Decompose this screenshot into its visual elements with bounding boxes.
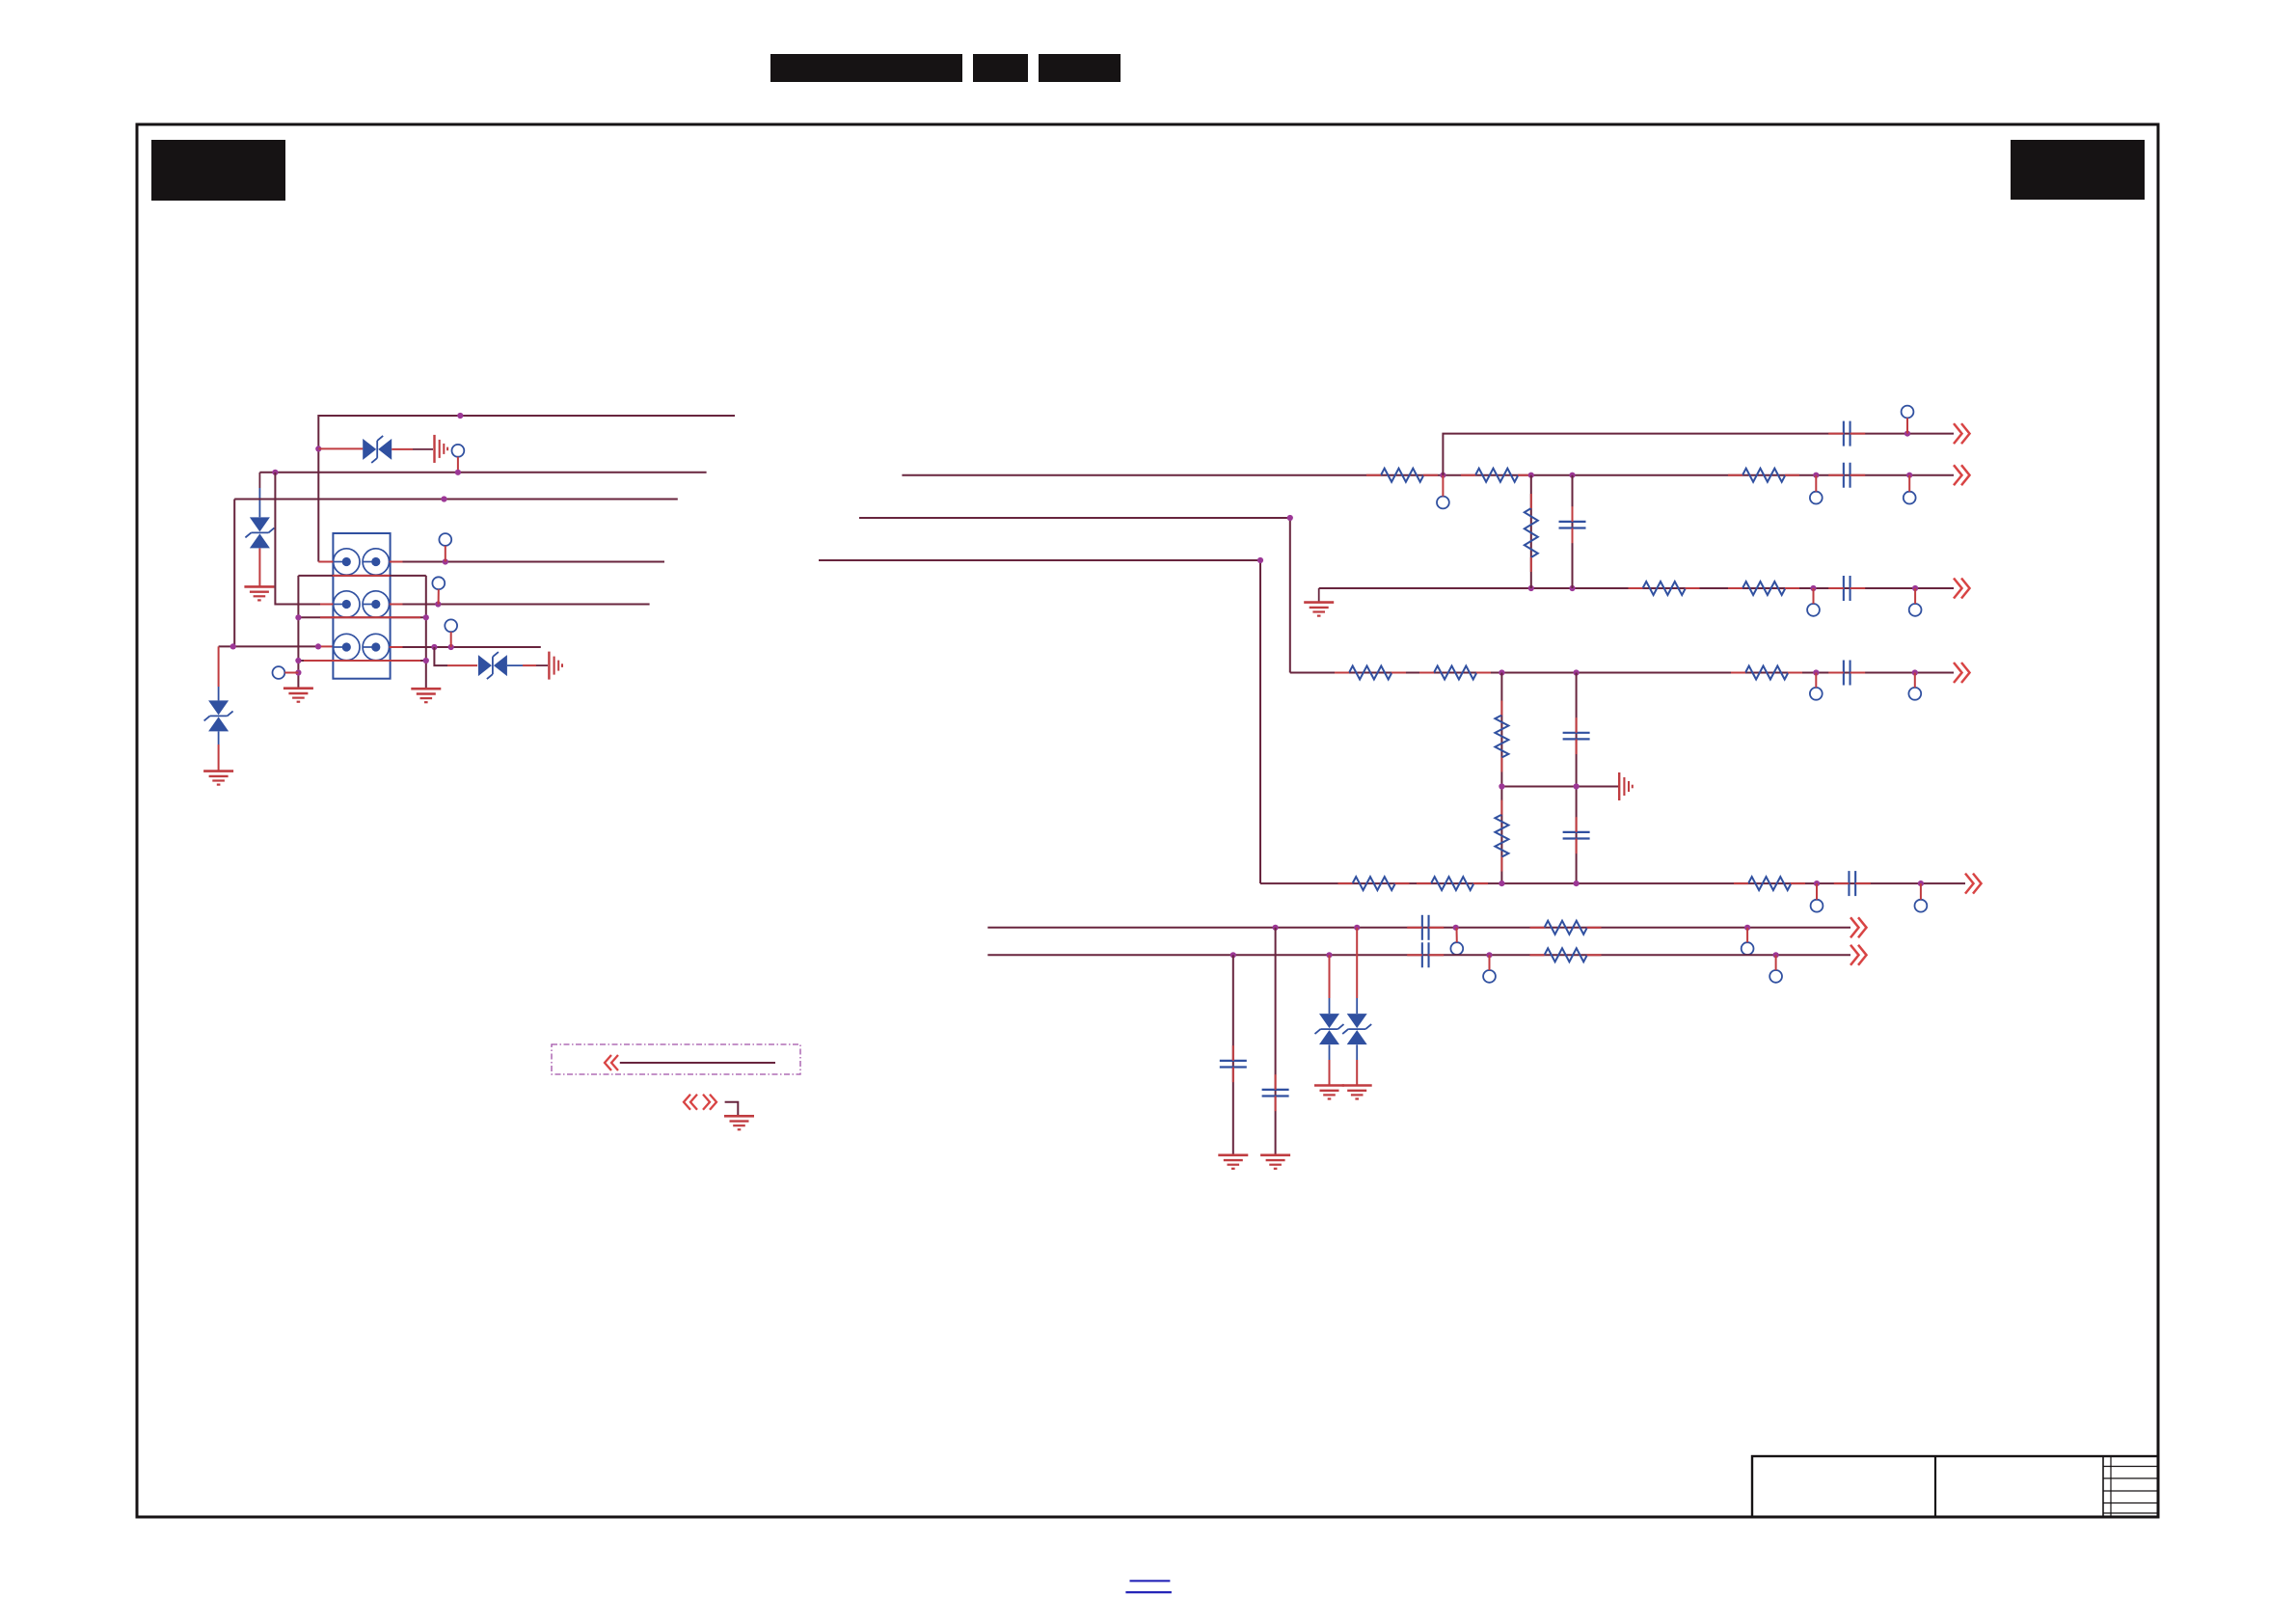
wire D3 bottom lead [218, 731, 220, 771]
junction rowF-1 [1273, 925, 1279, 931]
wire Cv1 vertical [1572, 475, 1574, 588]
capacitor C3 [1559, 506, 1586, 543]
wire shield left vertical [297, 576, 299, 689]
wire shield row2 [298, 616, 425, 618]
connector J1 pin3 [334, 591, 360, 617]
capacitor C4 [1828, 576, 1865, 601]
junction feeder2 corner [1257, 557, 1263, 563]
wire T13 stub [1914, 673, 1916, 688]
terminal T4 [445, 619, 457, 632]
terminal T16 [1450, 942, 1463, 955]
terminal T6 [1437, 497, 1449, 509]
wire T10 stub [1813, 588, 1815, 604]
diode D6 (TVS) [1342, 1014, 1371, 1044]
wire row3-right [403, 646, 541, 648]
wire pair-gnd [725, 1102, 739, 1117]
wire note [620, 1062, 775, 1064]
wire rowD [1290, 672, 1954, 674]
ground D5 [1314, 1086, 1344, 1099]
wire net3 vertical [233, 500, 235, 647]
junction rowF-4 [1744, 925, 1750, 931]
wire shield row3 [298, 660, 425, 662]
wire T3 stub [438, 589, 440, 604]
terminal T18 [1483, 970, 1496, 983]
footer link underline 2 [1125, 1591, 1172, 1593]
connector J1 pin1 [334, 549, 360, 575]
wire net2 horizontal [259, 472, 706, 474]
capacitor C9 [1407, 915, 1444, 940]
junction shield-l3 [295, 669, 301, 675]
wire net3 horizontal [234, 499, 678, 501]
diode D1 (TVS) [363, 436, 392, 463]
junction rowE-1 [1499, 880, 1504, 886]
ground D2 [244, 586, 274, 600]
redaction bar 3 [1039, 54, 1121, 82]
resistor R5 [1629, 582, 1700, 595]
wire D6 leads [1356, 928, 1358, 1086]
terminal T10 [1807, 604, 1820, 616]
terminal T15 [1915, 900, 1928, 912]
wire C12 vertical [1275, 928, 1277, 1155]
junction rowC-4 [1912, 585, 1918, 591]
capacitor C5 [1828, 661, 1865, 686]
resistor R14 [1734, 877, 1805, 890]
junction rowG-2 [1326, 952, 1332, 958]
chassis ground D1 [435, 435, 448, 463]
junction rowD-1 [1499, 669, 1504, 675]
resistor R12 [1338, 877, 1410, 890]
terminal T3 [432, 577, 445, 589]
wire T17 stub [1746, 928, 1748, 942]
resistor R4 [1728, 469, 1799, 482]
wire feeder1 [859, 518, 1290, 673]
chassis ground D4 [549, 652, 562, 680]
wire T6 stub [1442, 475, 1444, 497]
diode D5 (TVS) [1315, 1014, 1344, 1044]
wire shield row1 [298, 575, 425, 577]
junction net2-b [455, 470, 461, 475]
resistor R9 [1495, 701, 1508, 772]
junction rowB-5 [1906, 473, 1912, 478]
junction rowC-1 [1528, 585, 1534, 591]
capacitor C8 [1834, 871, 1871, 896]
junction rowC-2 [1569, 585, 1575, 591]
ground D6 [1342, 1086, 1372, 1099]
redaction box top-right [2011, 140, 2145, 200]
wire pin2 stub [390, 561, 403, 563]
arrow rowA [1954, 423, 1970, 444]
junction rowF-3 [1453, 925, 1459, 931]
junction row2-right [435, 601, 441, 607]
junction mid-2 [1574, 783, 1580, 789]
wire D1 cathode lead [392, 448, 433, 450]
wire T15 stub [1920, 883, 1922, 900]
junction rowD-3 [1813, 669, 1819, 675]
terminal T9 [1902, 406, 1914, 419]
terminal T7 [1810, 492, 1823, 504]
chassis ground mid [1619, 772, 1633, 800]
terminal T13 [1908, 688, 1921, 700]
junction mid-1 [1499, 783, 1504, 789]
capacitor C6 [1563, 717, 1590, 754]
ground C12 [1260, 1155, 1290, 1169]
resistor R11 [1495, 800, 1508, 872]
ground G2 [411, 689, 441, 702]
terminal T8 [1904, 492, 1916, 504]
redaction bar 2 [973, 54, 1028, 82]
capacitor C1 [1828, 421, 1865, 447]
redaction bar 1 [770, 54, 962, 82]
connector J1 body [333, 533, 390, 679]
wire D1 anode lead [318, 447, 363, 449]
wire T1 stub [457, 457, 459, 473]
wire row3-left [219, 645, 334, 647]
connector J1 pin5 [334, 634, 360, 660]
capacitor C10 [1407, 942, 1444, 967]
ground rowC [1304, 603, 1334, 616]
wire T18 stub [1489, 955, 1491, 970]
arrow note-left [605, 1055, 618, 1070]
resistor R13 [1417, 877, 1488, 890]
wire T14 stub [1816, 883, 1818, 900]
resistor R3 [1525, 494, 1538, 572]
junction shield-l1 [295, 614, 301, 620]
arrow pair-right [703, 1095, 716, 1110]
arrow rowF [1850, 917, 1867, 937]
wire D3 top lead [218, 646, 220, 700]
resistor R6 [1728, 582, 1799, 595]
junction net3-a [441, 496, 446, 501]
diode D2 (TVS) [245, 517, 274, 548]
terminal T17 [1742, 942, 1754, 955]
wire pin4 stub [390, 604, 403, 606]
ground D3 [203, 771, 233, 785]
ground pair [724, 1116, 754, 1129]
sheet border frame [137, 124, 2158, 1517]
wire D5 leads [1329, 955, 1331, 1085]
wire mid link [1501, 786, 1618, 788]
junction rowD-2 [1574, 669, 1580, 675]
wire rowF [987, 927, 1850, 929]
wire D2 top lead [258, 473, 260, 518]
junction net1-a [457, 413, 463, 419]
junction row3-right-b [448, 644, 454, 650]
wire pin1 stub [318, 561, 333, 563]
ground G1 [284, 689, 313, 702]
wire T5 stub [284, 672, 298, 674]
wire T7 stub [1815, 475, 1817, 492]
wire rowG [987, 954, 1850, 956]
title block [1752, 1456, 2158, 1517]
junction feeder1 corner [1287, 515, 1293, 521]
wire pin5 stub [390, 646, 403, 648]
wire Cv2 vertical [1576, 673, 1578, 884]
capacitor C12 [1262, 1074, 1289, 1111]
wire D2 bottom lead [258, 549, 260, 587]
arrow rowG [1850, 945, 1867, 965]
footer link underline 1 [1130, 1580, 1171, 1582]
wire T9 stub [1906, 418, 1908, 433]
wire rowA [1443, 434, 1954, 475]
junction shield-l2 [295, 658, 301, 663]
arrow rowE [1965, 874, 1982, 894]
junction rowA-1 [1904, 431, 1910, 437]
junction rowE-4 [1918, 880, 1924, 886]
terminal T2 [439, 533, 451, 546]
wire T8 stub [1908, 475, 1910, 492]
junction row3-left-a [230, 643, 236, 649]
junction rowG-1 [1230, 952, 1236, 958]
resistor R16 [1530, 948, 1602, 961]
junction rowF-2 [1354, 925, 1360, 931]
capacitor C11 [1220, 1045, 1247, 1082]
junction rowG-3 [1486, 952, 1492, 958]
junction row3-right-a [431, 644, 437, 650]
junction rowB-2 [1528, 473, 1534, 478]
note box (dash-dot) [552, 1044, 800, 1074]
terminal T1 [452, 445, 465, 457]
junction net1-b [315, 446, 321, 451]
junction rowB-4 [1813, 473, 1819, 478]
junction rowE-3 [1814, 880, 1820, 886]
wire T16 stub [1456, 928, 1458, 942]
resistor R8 [1419, 666, 1491, 680]
capacitor C7 [1563, 817, 1590, 853]
arrow pair-left [684, 1095, 697, 1110]
wire shield right vertical [425, 576, 427, 689]
terminal T11 [1909, 604, 1922, 616]
terminal T19 [1769, 970, 1782, 983]
wire T11 stub [1914, 588, 1916, 604]
junction rowE-2 [1574, 880, 1580, 886]
junction rowG-4 [1773, 952, 1779, 958]
wire T2 stub [445, 546, 446, 562]
capacitor C2 [1828, 463, 1865, 488]
junction shield-r1 [423, 614, 429, 620]
wire D4 right lead [507, 664, 548, 666]
junction shield-r2 [423, 658, 429, 663]
junction rowB-1 [1440, 473, 1445, 478]
terminal T5 [273, 666, 285, 679]
junction net2-a [272, 470, 278, 475]
wire feeder2 [819, 560, 1260, 883]
wire row1-right [403, 561, 665, 563]
resistor R15 [1530, 921, 1602, 934]
wire C11 vertical [1232, 955, 1234, 1155]
wire Rv1 vertical [1530, 475, 1532, 588]
connector J1 pin2 [363, 549, 389, 575]
junction rowC-3 [1810, 585, 1816, 591]
wire rowE [1260, 882, 1965, 884]
redaction box top-left [151, 140, 285, 201]
resistor R1 [1366, 469, 1438, 482]
wire pin3 stub [320, 604, 333, 606]
wire row2-right [403, 604, 650, 606]
wire T4 stub [450, 632, 452, 647]
diode D4 (TVS) [478, 652, 507, 679]
wire Rv2 vertical [1500, 673, 1502, 884]
junction rowB-3 [1569, 473, 1575, 478]
wire T12 stub [1815, 673, 1817, 688]
ground C11 [1218, 1155, 1248, 1169]
wire net1 vertical+top [318, 416, 735, 562]
wire rowC gnd stub [1318, 588, 1320, 603]
wire row2-left [275, 473, 320, 605]
junction row3-left-b [315, 643, 321, 649]
connector J1 pin6 [363, 634, 389, 660]
wire rowB [902, 474, 1954, 476]
wire D4 left lead [434, 647, 477, 665]
junction row1-right [443, 558, 448, 564]
resistor R2 [1461, 469, 1532, 482]
junction rowD-4 [1912, 669, 1918, 675]
resistor R7 [1335, 666, 1406, 680]
wire T19 stub [1775, 955, 1777, 970]
resistor R10 [1731, 666, 1802, 680]
arrow rowC [1954, 579, 1970, 599]
wire rowC [1319, 587, 1954, 589]
diode D3 (TVS) [204, 700, 233, 731]
terminal T12 [1810, 688, 1823, 700]
arrow rowD [1954, 663, 1970, 683]
arrow rowB [1954, 465, 1970, 485]
terminal T14 [1811, 900, 1823, 912]
connector J1 pin4 [363, 591, 389, 617]
